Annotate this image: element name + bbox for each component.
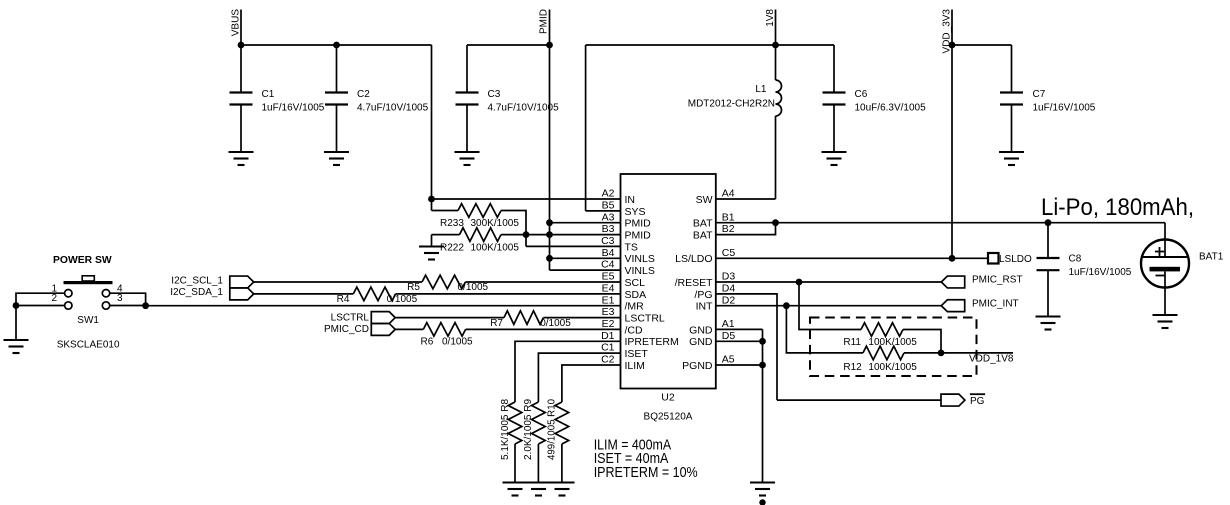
wire battery to ground xyxy=(1164,271,1166,315)
svg-text:R6: R6 xyxy=(421,337,434,348)
svg-text:R12: R12 xyxy=(843,362,862,373)
svg-text:E2: E2 xyxy=(602,318,615,330)
svg-text:0/1005: 0/1005 xyxy=(387,294,418,305)
wire PGND A5 xyxy=(716,364,763,366)
wire /RESET to R11 xyxy=(799,282,861,330)
svg-text:C2: C2 xyxy=(601,354,615,366)
resistor R11 xyxy=(861,323,903,337)
svg-text:PMID: PMID xyxy=(625,230,652,242)
net label VBUS xyxy=(240,10,242,46)
node IN junction xyxy=(428,196,435,203)
svg-text:IPRETERM: IPRETERM xyxy=(625,336,679,348)
capacitor C1 xyxy=(240,45,242,93)
node BAT junction C8 xyxy=(1045,219,1052,226)
svg-text:/MR: /MR xyxy=(625,301,645,313)
svg-text:C6: C6 xyxy=(855,89,868,100)
switch SW1 pin 4 circle xyxy=(102,290,109,297)
svg-text:300K/1005: 300K/1005 xyxy=(471,218,520,229)
capacitor C7 xyxy=(1011,45,1013,93)
wire /RESET (D3) xyxy=(716,281,942,283)
wire IN (A2) xyxy=(432,198,621,200)
svg-text:C3: C3 xyxy=(601,235,615,247)
svg-text:Li-Po, 180mAh,: Li-Po, 180mAh, xyxy=(1041,194,1194,221)
wire SW1 pin2 xyxy=(16,305,65,307)
svg-text:C5: C5 xyxy=(722,247,736,259)
svg-text:PG: PG xyxy=(970,396,985,407)
wire GND A1 xyxy=(716,328,763,330)
wire to ground (SW1) xyxy=(15,306,17,341)
resistor R10 xyxy=(555,402,569,444)
LSLDO terminal square xyxy=(988,253,999,264)
wire VDD_1V8 stub xyxy=(941,352,1013,354)
resistor R7 xyxy=(504,311,543,325)
svg-text:B5: B5 xyxy=(602,200,615,212)
net label PMID xyxy=(549,10,551,46)
resistor R222 xyxy=(432,234,460,236)
wire ISET (C1) xyxy=(538,353,620,402)
wire VBUS rail xyxy=(241,44,432,46)
port flag LSCTRL xyxy=(371,312,395,324)
resistor R6 xyxy=(423,323,465,337)
wire BAT to battery xyxy=(1164,223,1166,257)
ground (C2) xyxy=(324,151,349,153)
svg-text:A5: A5 xyxy=(722,354,735,366)
svg-text:SW: SW xyxy=(696,194,713,206)
svg-text:PMIC_RST: PMIC_RST xyxy=(972,275,1023,286)
svg-text:2: 2 xyxy=(51,293,57,304)
node VDD_1V8 junction xyxy=(938,350,945,357)
wire PMID pins A3 xyxy=(550,222,621,224)
svg-text:R5: R5 xyxy=(407,282,420,293)
node GND junction A5 xyxy=(759,362,766,369)
port flag PMIC_CD xyxy=(371,323,395,335)
svg-text:GND: GND xyxy=(689,324,713,336)
svg-text:D2: D2 xyxy=(722,294,736,306)
ground (C1) xyxy=(229,151,254,153)
svg-text:C1: C1 xyxy=(601,342,615,354)
svg-text:A4: A4 xyxy=(722,188,735,200)
svg-text:SDA: SDA xyxy=(625,289,647,301)
ground (C7) xyxy=(999,151,1024,153)
svg-text:10uF/6.3V/1005: 10uF/6.3V/1005 xyxy=(855,103,927,114)
svg-text:PMIC_CD: PMIC_CD xyxy=(324,324,369,335)
resistor R233 xyxy=(432,210,459,212)
svg-text:5.1K/1005 R8: 5.1K/1005 R8 xyxy=(500,399,511,460)
svg-text:ILIM: ILIM xyxy=(625,360,645,372)
svg-text:IN: IN xyxy=(625,194,636,206)
svg-text:B1: B1 xyxy=(722,211,735,223)
svg-text:U2: U2 xyxy=(661,392,675,404)
svg-text:SW1: SW1 xyxy=(77,315,99,326)
svg-text:INT: INT xyxy=(696,301,714,313)
wire VDD_3V3 to C7 xyxy=(952,44,1012,46)
svg-text:BAT1: BAT1 xyxy=(1199,252,1224,263)
wire SYS riser xyxy=(585,45,587,211)
capacitor C6 xyxy=(833,45,835,93)
svg-text:R11: R11 xyxy=(843,337,861,348)
wire PMID down to IC pins xyxy=(549,45,551,270)
svg-text:PMIC_INT: PMIC_INT xyxy=(972,298,1019,309)
svg-text:D3: D3 xyxy=(722,271,736,283)
PG label with overline xyxy=(970,393,985,395)
svg-text:L1: L1 xyxy=(755,84,767,95)
port flag I2C_SCL_1 xyxy=(230,276,254,288)
node R233/R222 junction xyxy=(523,231,530,238)
svg-text:/PG: /PG xyxy=(694,289,712,301)
capacitor C3 xyxy=(466,45,468,93)
wire SW1 pin4 xyxy=(110,293,146,306)
wire VINLS B4 xyxy=(550,257,621,259)
switch SW1 pin 2 circle xyxy=(65,302,72,309)
wire SCL (E5) xyxy=(254,281,422,283)
svg-text:0/1005: 0/1005 xyxy=(458,282,489,293)
svg-text:4.7uF/10V/1005: 4.7uF/10V/1005 xyxy=(488,103,560,114)
svg-text:/RESET: /RESET xyxy=(675,277,714,289)
wire /CD (E2) xyxy=(395,328,423,330)
ground (PGND) xyxy=(750,481,775,483)
svg-text:LS/LDO: LS/LDO xyxy=(675,253,712,265)
svg-text:TS: TS xyxy=(625,241,638,253)
wire /PG (D4) xyxy=(716,294,777,400)
node PMID junction xyxy=(546,42,553,49)
ground (SW1) xyxy=(4,339,29,341)
wire R222 to ground xyxy=(431,235,433,247)
svg-text:E3: E3 xyxy=(602,306,615,318)
node VDD_3V3-LSLDO junction xyxy=(949,255,956,262)
svg-text:SCL: SCL xyxy=(625,277,646,289)
wire GND D5 xyxy=(716,340,763,342)
svg-text:E4: E4 xyxy=(602,283,615,295)
wire VINLS C4 xyxy=(550,269,621,271)
wire VBUS down to IN pin xyxy=(431,45,433,211)
svg-text:2.0K/1005 R9: 2.0K/1005 R9 xyxy=(523,399,534,460)
node /RESET junction xyxy=(796,279,803,286)
switch SW1 body xyxy=(64,281,113,284)
ground (R8 R9 R10) xyxy=(503,481,575,483)
svg-text:IPRETERM = 10%: IPRETERM = 10% xyxy=(594,464,698,481)
svg-text:0/1005: 0/1005 xyxy=(442,337,473,348)
ground (C3) xyxy=(455,151,480,153)
capacitor C8 xyxy=(1047,223,1049,258)
svg-text:C4: C4 xyxy=(601,259,615,271)
node SW1 left junction xyxy=(13,302,20,309)
svg-text:100K/1005: 100K/1005 xyxy=(471,242,520,253)
net label 1V8 xyxy=(775,10,777,46)
node PMID-B3 junction xyxy=(546,231,553,238)
op-amp U2 box (BQ25120A charger IC) xyxy=(621,174,716,389)
svg-text:C8: C8 xyxy=(1069,254,1082,265)
svg-text:R233: R233 xyxy=(440,218,464,229)
battery BAT1 xyxy=(1141,240,1189,288)
svg-text:0/1005: 0/1005 xyxy=(540,318,571,329)
wire R11 to junction xyxy=(903,330,941,353)
svg-text:E5: E5 xyxy=(602,271,615,283)
svg-text:C7: C7 xyxy=(1033,89,1046,100)
resistor R9 xyxy=(532,402,546,444)
svg-text:D1: D1 xyxy=(601,330,615,342)
svg-text:A3: A3 xyxy=(602,211,615,223)
node GND junction D5 xyxy=(759,338,766,345)
wire LS/LDO (C5) xyxy=(716,257,988,259)
svg-text:1uF/16V/1005: 1uF/16V/1005 xyxy=(1033,103,1096,114)
wire LSCTRL (E3) xyxy=(395,317,504,319)
wire /PG to flag xyxy=(777,399,941,401)
resistor R8 xyxy=(508,402,522,444)
wire PMID rail xyxy=(467,44,550,46)
svg-text:100K/1005: 100K/1005 xyxy=(868,362,917,373)
port flag I2C_SDA_1 xyxy=(230,288,254,300)
wire BAT (B2) xyxy=(716,223,776,235)
wire GND riser xyxy=(762,329,764,482)
svg-text:C3: C3 xyxy=(488,89,501,100)
node VBUS junction C2 xyxy=(333,42,340,49)
dashed option box xyxy=(810,318,977,377)
wire 1V8 rail xyxy=(586,44,834,46)
net label VDD_3V3 xyxy=(951,10,953,259)
node 1V8 junction L1 xyxy=(772,42,779,49)
ground (R222) xyxy=(419,245,444,247)
svg-text:499/1005 R10: 499/1005 R10 xyxy=(547,399,558,460)
wire SW1 pin1 to ground xyxy=(16,293,65,305)
svg-text:POWER SW: POWER SW xyxy=(53,254,112,266)
svg-text:E1: E1 xyxy=(602,294,615,306)
port flag PMIC_INT xyxy=(941,300,964,312)
wire R7 to IC xyxy=(543,317,620,319)
wire /MR (E1) from switch xyxy=(146,305,621,307)
wire BAT (B1) xyxy=(716,222,1165,224)
svg-text:PMID: PMID xyxy=(625,218,652,230)
svg-text:R4: R4 xyxy=(337,294,350,305)
ground (C6) xyxy=(822,151,847,153)
svg-text:B4: B4 xyxy=(602,247,615,259)
svg-text:LSCTRL: LSCTRL xyxy=(331,312,370,323)
svg-text:BAT: BAT xyxy=(693,230,713,242)
svg-text:GND: GND xyxy=(689,336,713,348)
svg-text:R7: R7 xyxy=(490,318,503,329)
svg-text:LSCTRL: LSCTRL xyxy=(625,313,665,325)
wire ILIM (C2) xyxy=(562,365,621,402)
ground (C8) xyxy=(1036,315,1061,317)
svg-text:3: 3 xyxy=(117,293,123,304)
node PMID-A3 junction xyxy=(546,219,553,226)
wire INT (D2) xyxy=(716,305,942,307)
wire TS (C3) xyxy=(526,245,621,247)
svg-text:A2: A2 xyxy=(602,188,615,200)
inductor L1 xyxy=(775,45,777,80)
svg-text:B3: B3 xyxy=(602,223,615,235)
svg-text:SYS: SYS xyxy=(625,206,646,218)
svg-text:BQ25120A: BQ25120A xyxy=(644,412,693,423)
wire INT to R12 xyxy=(786,306,863,353)
node below PGND ground xyxy=(759,499,765,505)
svg-text:D5: D5 xyxy=(722,330,736,342)
svg-text:1V8: 1V8 xyxy=(765,9,776,27)
wire SW (A4) to L1 xyxy=(716,198,776,200)
port flag PG xyxy=(941,394,965,406)
node SW1 right junction xyxy=(142,302,149,309)
capacitor C2 xyxy=(336,45,338,93)
svg-text:1uF/16V/1005: 1uF/16V/1005 xyxy=(262,103,325,114)
svg-text:A1: A1 xyxy=(722,318,735,330)
node PMID-B4 junction xyxy=(546,255,553,262)
svg-text:VINLS: VINLS xyxy=(625,265,655,277)
svg-text:I2C_SCL_1: I2C_SCL_1 xyxy=(171,275,223,286)
svg-text:SKSCLAE010: SKSCLAE010 xyxy=(57,340,120,351)
wire R6 to IC xyxy=(466,328,621,330)
svg-text:MDT2012-CH2R2N: MDT2012-CH2R2N xyxy=(688,99,775,110)
port flag PMIC_RST xyxy=(941,276,964,288)
svg-text:C1: C1 xyxy=(262,89,275,100)
svg-text:C2: C2 xyxy=(357,89,370,100)
svg-text:VBUS: VBUS xyxy=(231,9,242,37)
svg-text:PMID: PMID xyxy=(539,9,550,34)
svg-text:I2C_SDA_1: I2C_SDA_1 xyxy=(170,287,223,298)
resistor R4 xyxy=(353,287,395,301)
svg-text:R222: R222 xyxy=(440,242,464,253)
node VBUS junction C1 xyxy=(238,42,245,49)
svg-text:BAT: BAT xyxy=(693,218,713,230)
svg-text:D4: D4 xyxy=(722,283,736,295)
svg-text:B2: B2 xyxy=(722,223,735,235)
svg-text:VINLS: VINLS xyxy=(625,253,655,265)
wire IPRETERM (D1) xyxy=(515,341,621,402)
svg-text:/CD: /CD xyxy=(625,324,644,336)
svg-text:ISET: ISET xyxy=(625,348,649,360)
resistor R12 xyxy=(863,346,904,360)
svg-text:LSLDO: LSLDO xyxy=(999,254,1032,265)
switch SW1 pin 3 circle xyxy=(102,302,109,309)
node BAT junction B2 xyxy=(772,219,779,226)
node VDD_3V3 junction top xyxy=(949,42,956,49)
svg-text:1uF/16V/1005: 1uF/16V/1005 xyxy=(1069,267,1132,278)
wire SDA (E4) xyxy=(254,293,353,295)
wire PMID pins B3 xyxy=(526,234,621,236)
switch SW1 pin 1 circle xyxy=(65,290,72,297)
svg-text:4.7uF/10V/1005: 4.7uF/10V/1005 xyxy=(357,103,429,114)
resistor R5 xyxy=(422,275,465,289)
wire R4 to IC xyxy=(396,293,621,295)
ground (BAT1) xyxy=(1153,314,1178,316)
svg-text:VDD_1V8: VDD_1V8 xyxy=(969,354,1014,365)
wire SW1 pin3 xyxy=(110,305,146,307)
wire R5 to IC xyxy=(465,281,620,283)
svg-text:PGND: PGND xyxy=(682,360,713,372)
node INT junction xyxy=(783,302,790,309)
wire R12 to junction xyxy=(904,352,941,354)
